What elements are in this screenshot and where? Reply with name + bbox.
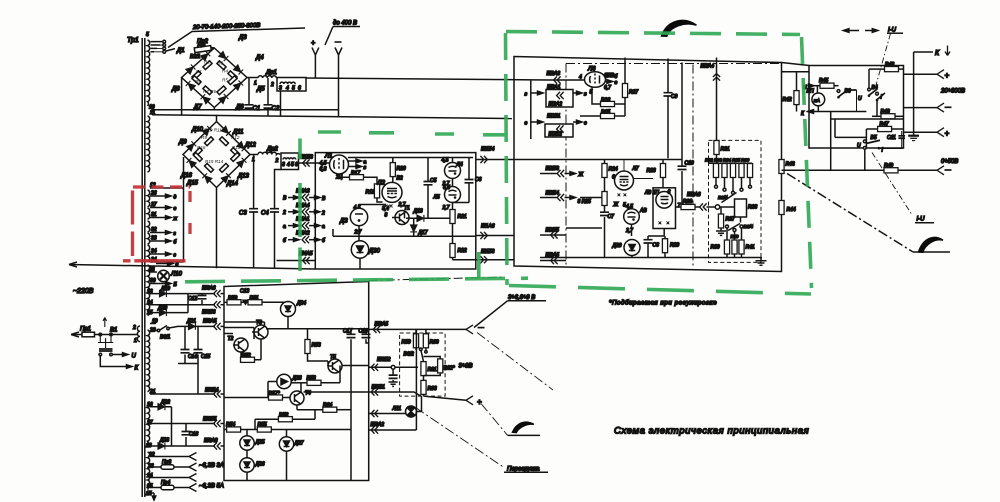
tap 32: [150, 227, 177, 237]
connector Sh2B4: [540, 191, 602, 206]
svg-text:Д28: Д28: [292, 376, 302, 382]
cap C13 label and diode: [240, 289, 249, 305]
svg-text:U: U: [857, 143, 861, 149]
connector wires Sh4A3: [283, 189, 326, 203]
svg-text:Ж: Ж: [613, 202, 619, 208]
stabilitron D30: [351, 241, 380, 269]
svg-text:R19: R19: [366, 190, 375, 196]
diode D18: [406, 209, 453, 222]
tube L4: [442, 158, 463, 188]
svg-text:Д8: Д8: [171, 87, 180, 93]
svg-text:7: 7: [678, 203, 681, 209]
resistor R31: [714, 141, 730, 164]
svg-text:Ш4А2: Ш4А2: [296, 231, 310, 237]
svg-text:С3: С3: [239, 211, 247, 217]
label IU top: [876, 28, 903, 86]
svg-text:Ш1А6: Ш1А6: [481, 224, 495, 230]
resistor R29: [662, 236, 679, 258]
svg-text:Л2: Л2: [377, 181, 386, 187]
resistor R38: [720, 199, 757, 223]
svg-text:Д17: Д17: [418, 230, 428, 236]
ground bottom dashed box: [756, 258, 767, 266]
diode D2: [197, 42, 210, 61]
tap 26: [150, 191, 177, 201]
svg-text:R22: R22: [458, 248, 467, 254]
svg-text:Д25: Д25: [255, 440, 265, 446]
svg-text:~6,3В 3А: ~6,3В 3А: [199, 463, 224, 469]
tap 19: [150, 319, 158, 325]
svg-text:е: е: [525, 121, 528, 127]
svg-text:Ш3Б2: Ш3Б2: [377, 357, 391, 363]
svg-text:R43: R43: [786, 162, 795, 168]
connector Sh2B3: [540, 166, 584, 178]
transistor T5: [328, 355, 342, 374]
tube L2: [377, 176, 406, 219]
svg-text:ж: ж: [173, 216, 178, 222]
chain line right of module3: [369, 277, 505, 281]
svg-text:3÷9В: 3÷9В: [459, 364, 473, 370]
cap C1: [245, 78, 261, 112]
tap 12 wire: [150, 183, 184, 189]
svg-text:+: +: [477, 398, 482, 407]
svg-text:С11: С11: [887, 135, 896, 141]
connector box Sh2A1 Sh2A2: [525, 85, 588, 108]
tap 31: [150, 212, 178, 222]
resistor R57: [224, 391, 290, 400]
cap to ground: [389, 369, 398, 386]
svg-text:Д18: Д18: [413, 209, 423, 215]
svg-text:1: 1: [254, 81, 257, 87]
svg-text:R38: R38: [748, 205, 757, 211]
resistor R54: [224, 422, 257, 432]
tap 15 ground: [146, 491, 156, 500]
ground bus K: [908, 52, 919, 141]
red dashed box: [123, 187, 190, 261]
svg-text:Л5: Л5: [433, 195, 440, 201]
svg-text:3 R25: 3 R25: [578, 199, 592, 205]
stabilitron D26: [240, 458, 265, 480]
winding mid: [148, 116, 150, 172]
pin arrows L6: [606, 74, 618, 86]
tube L5: [433, 185, 461, 211]
resistor R25: [602, 192, 607, 212]
svg-text:Л10: Л10: [170, 272, 182, 278]
connector Sh1B3 out: [453, 249, 515, 263]
resistor R47: [866, 122, 903, 132]
double arrows: [843, 29, 877, 33]
resistor R60: [423, 329, 439, 353]
svg-text:R42: R42: [783, 97, 792, 103]
svg-text:Ж: Ж: [578, 172, 584, 178]
leader dash minus: [477, 333, 553, 391]
winding sec4: [148, 452, 150, 490]
svg-text:Др2: Др2: [266, 147, 279, 153]
resistor R62: [424, 357, 456, 376]
tap 24 fork: [146, 473, 197, 482]
svg-text:5: 5: [146, 32, 149, 38]
svg-text:В6/2: В6/2: [404, 352, 415, 358]
transistor T3: [252, 320, 268, 339]
svg-text:~220В: ~220В: [73, 288, 94, 295]
winding sec2: [148, 330, 150, 392]
resistor R21: [450, 210, 467, 237]
resistor R37: [718, 207, 734, 231]
cap C11: [887, 131, 905, 148]
winding primary top: [148, 40, 150, 106]
svg-text:Л7: Л7: [632, 166, 639, 172]
diode D22: [147, 400, 172, 447]
svg-text:R3: R3: [217, 61, 223, 66]
svg-text:U: U: [858, 96, 862, 102]
wire Sh3B1 row: [304, 391, 369, 393]
label 3-6.6-9V: [474, 295, 546, 328]
plus output wire: [424, 396, 483, 407]
diode D10: [191, 126, 212, 136]
stabilitron D29: [612, 240, 641, 258]
cap C15: [194, 326, 211, 363]
diode D19: [147, 286, 215, 297]
svg-text:R59: R59: [402, 340, 411, 346]
diode D14: [221, 173, 238, 187]
cap C4: [261, 170, 281, 269]
diode D13: [237, 158, 250, 180]
resistor R56: [255, 410, 315, 430]
cap C5: [424, 158, 437, 219]
green vertical sh4: [298, 139, 302, 272]
svg-text:Ш4А4: Ш4А4: [296, 203, 310, 209]
cap C6: [453, 158, 482, 203]
tap selector contacts: [146, 32, 175, 53]
svg-text:Ш2А2: Ш2А2: [549, 102, 563, 108]
R47 wire: [831, 118, 904, 120]
svg-text:4: 4: [287, 162, 290, 168]
tap 21 wire Sh3B4: [149, 388, 225, 398]
svg-text:С8: С8: [653, 243, 660, 249]
green line bottom modules: [185, 278, 528, 282]
vertical link: [415, 329, 417, 430]
svg-text:U: U: [132, 354, 137, 360]
svg-text:R8: R8: [195, 79, 201, 84]
svg-text:К: К: [135, 366, 139, 372]
top bus module1: [348, 157, 473, 159]
svg-text:R37: R37: [726, 217, 735, 223]
inner verticals: [831, 112, 867, 170]
fuse Pr2: [190, 39, 215, 60]
tube L1: [316, 154, 349, 181]
resistor R49 terminal minus50: [782, 163, 952, 175]
wire tap11: [150, 110, 512, 119]
resistor R30: [676, 199, 700, 210]
tap 24 label: [150, 257, 179, 268]
svg-text:Ш1Б4: Ш1Б4: [481, 147, 495, 153]
connector Sh2B5: [540, 228, 602, 239]
resistor R63: [421, 380, 437, 396]
svg-text:6: 6: [668, 190, 671, 196]
cap C17: [343, 329, 356, 481]
svg-text:6: 6: [298, 86, 301, 92]
green box bottom: [509, 286, 811, 295]
diode D23: [146, 438, 215, 450]
svg-text:Д3: Д3: [339, 219, 348, 225]
switch V6-2: [404, 348, 424, 362]
winding in red box: [148, 190, 150, 262]
switch V6-1: [149, 326, 171, 341]
svg-text:Д15: Д15: [186, 181, 199, 187]
svg-text:Д4: Д4: [255, 55, 264, 61]
arrow 220V: [71, 332, 79, 337]
svg-text:Д21: Д21: [186, 319, 196, 325]
svg-text:Д12: Д12: [244, 143, 257, 149]
swoosh bottom: [513, 422, 534, 432]
terminal plus50: [904, 128, 950, 138]
choke Dr1: [247, 70, 306, 116]
svg-text:R60: R60: [430, 340, 439, 346]
cap C3: [239, 155, 258, 268]
svg-text:С13: С13: [240, 289, 249, 295]
svg-text:R15 R14: R15 R14: [205, 159, 224, 164]
resistor R17: [339, 171, 377, 185]
resistor R39: [711, 228, 730, 258]
svg-text:2: 2: [132, 325, 136, 331]
svg-text:Д10: Д10: [191, 127, 204, 133]
swoosh right: [919, 237, 944, 252]
svg-text:Т1: Т1: [404, 206, 410, 212]
meter module box: [809, 66, 904, 149]
svg-text:+: +: [311, 40, 315, 47]
svg-text:3: 3: [282, 162, 285, 168]
svg-text:д: д: [174, 195, 177, 201]
resistors R9-R16 inside bridge: [193, 137, 239, 173]
svg-text:Д14: Д14: [226, 181, 239, 187]
module3 box: [224, 282, 369, 481]
svg-text:4,5: 4,5: [626, 204, 633, 210]
cap C9: [664, 59, 678, 159]
svg-text:Д13: Д13: [237, 174, 250, 180]
resistor R65: [580, 110, 625, 119]
svg-text:6,7: 6,7: [604, 85, 611, 91]
svg-text:Т5: Т5: [330, 355, 336, 361]
svg-text:2,7: 2,7: [442, 205, 450, 211]
svg-text:R21: R21: [458, 214, 467, 220]
svg-text:С2: С2: [272, 106, 280, 112]
transistor T2: [228, 336, 249, 352]
connector Sh3A2: [369, 422, 417, 434]
wire main high voltage bus: [306, 78, 548, 80]
svg-text:~6,3В 5А: ~6,3В 5А: [199, 484, 224, 490]
svg-text:С14: С14: [188, 354, 197, 360]
connector Sh3B1: [369, 385, 421, 397]
svg-text:R24: R24: [609, 167, 618, 173]
svg-text:R39: R39: [711, 245, 720, 251]
svg-text:R13: R13: [232, 145, 241, 150]
svg-text:2: 2: [270, 82, 274, 88]
resistor R53: [266, 329, 369, 361]
svg-text:в: в: [584, 92, 587, 98]
diode D9: [178, 140, 196, 152]
long wire 220 bus: [69, 265, 315, 270]
bridge rectifier D1-D8: [182, 48, 247, 115]
swoosh top: [662, 20, 697, 36]
diode D17: [410, 218, 428, 236]
module1 box: [315, 153, 476, 269]
winding sec3: [148, 402, 150, 445]
svg-text:Ш4А3: Ш4А3: [296, 189, 310, 195]
svg-text:R31: R31: [721, 147, 730, 153]
svg-text:6,5: 6,5: [443, 185, 450, 191]
svg-text:Д23: Д23: [159, 438, 169, 444]
resistor R44: [779, 201, 796, 215]
svg-text:R61: R61: [428, 367, 437, 373]
terminal minus 400V: [335, 42, 343, 117]
green vertical sh1b3: [477, 252, 481, 278]
tap 22 fork: [148, 452, 197, 461]
connector box Sh2B1 Sh2B2: [525, 114, 588, 138]
svg-text:Л1: Л1: [324, 154, 332, 160]
svg-text:R9: R9: [201, 135, 207, 140]
svg-text:5: 5: [292, 86, 295, 92]
svg-text:R44: R44: [787, 207, 796, 213]
wires T2 T3: [224, 322, 265, 339]
svg-text:6,8: 6,8: [320, 167, 327, 173]
leader diagonal to swoosh right: [787, 174, 950, 253]
fuse Pr4: [146, 480, 224, 492]
wire tap10: [149, 105, 339, 111]
transformer Tr1: [127, 37, 145, 497]
connector Sh1B4: [476, 147, 514, 164]
svg-text:3: 3: [279, 86, 282, 92]
svg-text:Д29: Д29: [612, 243, 622, 249]
svg-text:С9: С9: [671, 94, 678, 100]
svg-text:R1: R1: [196, 69, 202, 74]
tap 27: [150, 202, 177, 212]
K wire: [801, 110, 866, 117]
svg-text:С16: С16: [189, 432, 198, 438]
svg-text:б: б: [174, 240, 177, 246]
svg-text:Т3: Т3: [256, 320, 262, 326]
diode D12: [237, 142, 257, 152]
svg-text:е: е: [615, 80, 618, 86]
resistor R24: [602, 160, 618, 192]
svg-text:а: а: [283, 224, 286, 230]
svg-text:В6/1: В6/1: [160, 335, 171, 341]
svg-text:R41: R41: [746, 245, 755, 251]
lamp L10: [148, 267, 182, 288]
tap 33: [150, 236, 177, 246]
bus mid module1: [333, 229, 476, 236]
mid bus: [514, 159, 682, 161]
connector Sh3A5L: [203, 319, 225, 331]
switch V2-4 lower: [726, 224, 754, 232]
connector Sh2A5: [540, 253, 566, 265]
resistor R28: [647, 160, 666, 189]
cap C18: [359, 329, 371, 344]
stabilitron D24: [281, 301, 307, 329]
wire module2 to meter: [782, 63, 810, 72]
stabilitron D25: [240, 430, 265, 458]
terminal K: [914, 46, 950, 58]
svg-text:R4: R4: [222, 69, 228, 74]
svg-text:1: 1: [134, 338, 137, 344]
svg-text:Д24: Д24: [296, 301, 306, 307]
svg-text:I·U: I·U: [917, 217, 926, 223]
svg-text:до 400 В: до 400 В: [333, 21, 357, 27]
primary 220V winding left: [137, 326, 140, 342]
diode D1: [176, 48, 195, 74]
dashed box regulator: [400, 333, 446, 396]
svg-text:Ш2А3: Ш2А3: [547, 71, 561, 77]
svg-text:R53: R53: [312, 343, 321, 349]
diode D5: [233, 80, 265, 92]
svg-text:Ш4А1: Ш4А1: [296, 217, 310, 223]
resistor R48: [869, 62, 904, 72]
resistor R41: [739, 228, 755, 258]
connector Sh2A4: [701, 58, 721, 142]
svg-text:С15: С15: [201, 354, 210, 360]
diode D3: [219, 35, 248, 61]
green box left: [506, 33, 508, 285]
svg-text:е: е: [174, 206, 177, 212]
svg-text:Ш3А5: Ш3А5: [203, 319, 217, 325]
svg-text:20÷300В: 20÷300В: [940, 89, 965, 95]
svg-text:С12: С12: [188, 296, 197, 302]
resistor R40: [731, 232, 739, 258]
svg-text:С4: С4: [261, 211, 269, 217]
diode D15: [186, 173, 212, 186]
svg-text:R32 R33 R34 R35 R36: R32 R33 R34 R35 R36: [705, 158, 750, 163]
svg-text:а: а: [322, 224, 325, 230]
svg-text:*Подбирается при регулировке: *Подбирается при регулировке: [609, 299, 717, 307]
svg-text:Ш2А4: Ш2А4: [701, 64, 715, 70]
svg-text:Л9 1П: Л9 1П: [644, 190, 659, 196]
resistor R22: [450, 236, 467, 259]
resistor R26: [592, 88, 625, 107]
svg-text:АВ: АВ: [639, 208, 647, 214]
switch V4: [858, 69, 885, 116]
svg-text:Д3: Д3: [238, 35, 247, 41]
svg-text:R63: R63: [428, 386, 437, 392]
svg-text:2:7: 2:7: [354, 230, 362, 236]
bridge rectifier D9-D16: [183, 115, 250, 268]
svg-text:0÷50В: 0÷50В: [941, 159, 958, 165]
resistor R42: [783, 72, 800, 112]
resistor R50: [224, 296, 241, 305]
leader dash plus swoosh: [481, 404, 540, 436]
tap 34: [150, 249, 177, 259]
svg-text:Ш2Б3: Ш2Б3: [546, 166, 560, 172]
diode D21: [169, 319, 215, 330]
resistor R51: [241, 296, 288, 305]
label 20-70-140V: [168, 23, 305, 48]
green line mid: [318, 132, 506, 135]
svg-text:Д5: Д5: [256, 87, 265, 93]
svg-text:R27: R27: [629, 90, 638, 96]
connector wires Sh4A4: [282, 203, 325, 217]
loop vertical: [150, 157, 184, 262]
tap 14 wire Sh3B3: [147, 300, 225, 316]
svg-text:Ш2Б1: Ш2Б1: [547, 114, 561, 120]
connector Sh3A6: [202, 286, 225, 298]
svg-text:R10 R11: R10 R11: [204, 128, 222, 133]
resistor R52: [241, 339, 262, 363]
resistor R61: [421, 362, 437, 381]
svg-text:6: 6: [295, 162, 298, 168]
svg-text:4: 4: [286, 86, 289, 92]
svg-text:Д27: Д27: [294, 441, 304, 447]
connector Sh3A5 out: [369, 322, 485, 334]
svg-text:в: в: [525, 92, 528, 98]
svg-text:+: +: [945, 71, 950, 80]
resistor R64: [297, 403, 351, 413]
